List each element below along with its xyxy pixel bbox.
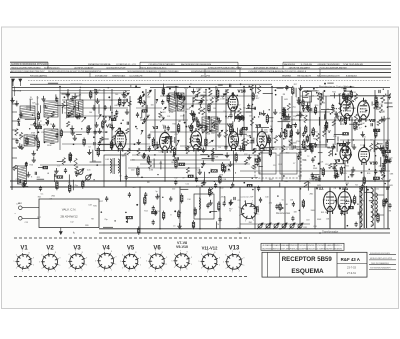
ground — [351, 167, 355, 172]
resistor — [235, 116, 240, 118]
svg-text:A.ERF3K.306AR3F: A.ERF3K.306AR3F — [74, 67, 94, 70]
resistor zigzag — [163, 139, 166, 144]
osc coil core — [112, 158, 114, 174]
wire vertical — [103, 89, 105, 150]
svg-text:5: 5 — [120, 261, 121, 263]
svg-text:V1: V1 — [20, 246, 28, 252]
wire vertical — [344, 212, 346, 228]
junction — [202, 132, 203, 133]
svg-text:C15: C15 — [227, 170, 230, 172]
junction — [152, 141, 153, 142]
resistor — [219, 175, 221, 185]
junction — [214, 181, 215, 182]
svg-text:1: 1 — [86, 264, 87, 266]
junction — [267, 142, 268, 143]
title block outer box — [262, 252, 367, 277]
capacitor — [199, 101, 202, 106]
svg-text:0K3D4.143R7-441.147RF: 0K3D4.143R7-441.147RF — [370, 258, 393, 260]
junction — [119, 134, 121, 136]
resistor — [139, 95, 141, 105]
wire vertical — [281, 96, 283, 181]
capacitor — [242, 116, 245, 121]
capacitor — [343, 94, 346, 99]
junction — [122, 105, 124, 107]
capacitor — [214, 183, 217, 188]
ground — [228, 161, 232, 166]
wire — [321, 108, 334, 110]
resistor zigzag — [173, 153, 176, 161]
svg-text:2: 2 — [253, 220, 254, 222]
header column tick — [47, 62, 49, 69]
wire right col — [383, 120, 385, 228]
wire top bus — [30, 83, 272, 85]
resistor zigzag — [126, 128, 129, 133]
power unit box — [39, 199, 99, 228]
wire — [327, 138, 335, 140]
resistor zigzag — [225, 89, 228, 94]
svg-text:RECEPTOR 5B59: RECEPTOR 5B59 — [282, 256, 333, 263]
resistor — [346, 145, 348, 154]
resistor zigzag — [210, 188, 213, 196]
svg-text:2: 2 — [55, 271, 56, 273]
svg-text:C3: C3 — [51, 141, 53, 143]
tube V4 — [191, 128, 202, 152]
resistor — [385, 154, 387, 163]
capacitor — [208, 116, 209, 119]
potentiometer — [257, 223, 263, 229]
wire line 145 — [270, 146, 330, 148]
wire stage row 108 — [64, 107, 128, 109]
capacitor — [334, 174, 337, 179]
resistor zigzag — [51, 112, 54, 118]
svg-text:0.05: 0.05 — [29, 99, 33, 101]
junction — [283, 138, 285, 140]
wire vertical — [344, 162, 346, 181]
wire — [166, 86, 178, 88]
resistor zigzag — [127, 148, 130, 155]
svg-text:8: 8 — [162, 252, 163, 254]
wire top bus 2b — [12, 90, 130, 92]
junction — [125, 212, 127, 214]
resistor — [36, 126, 42, 128]
wire — [146, 105, 148, 111]
svg-text:70: 70 — [217, 224, 219, 226]
svg-text:0.5M: 0.5M — [220, 98, 225, 100]
capacitor — [19, 180, 20, 183]
wire vertical — [145, 89, 147, 150]
svg-text:220: 220 — [26, 106, 29, 108]
svg-text:470K: 470K — [221, 197, 226, 199]
svg-text:2: 2 — [135, 270, 136, 272]
svg-text:100: 100 — [374, 149, 377, 151]
junction — [120, 123, 122, 125]
capacitor — [127, 122, 128, 125]
switch arrow — [209, 140, 214, 143]
ground — [54, 168, 58, 173]
resistor zigzag — [370, 143, 373, 151]
capacitor — [229, 84, 230, 87]
tube V2 — [115, 128, 126, 152]
svg-text:0.1: 0.1 — [41, 194, 44, 196]
tube V12 — [338, 189, 351, 215]
junction — [208, 155, 210, 157]
junction — [375, 216, 376, 217]
junction — [120, 180, 122, 182]
svg-text:220: 220 — [206, 205, 209, 207]
resistor — [90, 90, 92, 99]
junction — [359, 228, 361, 230]
svg-text:CKV4V0VR7K-F5VF: CKV4V0VR7K-F5VF — [106, 68, 126, 70]
junction — [383, 89, 384, 90]
coil box L3 — [44, 101, 58, 117]
svg-text:R22: R22 — [186, 109, 189, 111]
wire — [380, 157, 382, 167]
antenna A1 — [12, 79, 15, 87]
valve socket V7-V10 — [171, 250, 192, 272]
svg-text:0.05: 0.05 — [375, 188, 379, 190]
wire — [369, 200, 375, 202]
ground — [297, 99, 301, 104]
svg-text:8: 8 — [135, 252, 136, 254]
svg-text:23-7-53: 23-7-53 — [347, 266, 356, 270]
wire vertical — [154, 89, 156, 150]
ground — [350, 172, 354, 177]
capacitor — [143, 118, 146, 123]
wire — [61, 106, 63, 113]
svg-text:R4: R4 — [315, 132, 317, 134]
ground — [191, 89, 195, 94]
wire — [55, 94, 57, 100]
junction — [145, 150, 147, 152]
svg-text:2M2: 2M2 — [51, 196, 55, 198]
capacitor — [333, 165, 336, 170]
resistor — [110, 140, 112, 150]
ground — [217, 118, 221, 123]
switch arrow — [223, 94, 225, 98]
svg-text:V7: V7 — [338, 118, 344, 123]
capacitor — [310, 108, 311, 111]
wire — [371, 102, 373, 106]
svg-text:3: 3 — [232, 272, 233, 274]
capacitor — [46, 120, 49, 125]
junction — [371, 205, 372, 206]
resistor — [197, 120, 199, 129]
svg-text:793DK4220DR917MRC853860: 793DK4220DR917MRC853860 — [11, 68, 42, 70]
junction — [316, 87, 317, 88]
wire mid h2 — [140, 163, 250, 165]
wire left bus b — [14, 87, 16, 97]
output transformer secondary — [371, 188, 373, 226]
ground — [125, 109, 129, 114]
resistor — [375, 95, 377, 105]
capacitor — [336, 173, 339, 178]
ground — [73, 135, 77, 140]
wire — [332, 148, 334, 156]
svg-text:5: 5 — [146, 261, 147, 263]
junction — [340, 118, 341, 119]
wire — [307, 181, 309, 191]
cell divider — [324, 243, 326, 250]
terminal P1 — [19, 206, 23, 210]
svg-text:26F2R73E.M40A8R7: 26F2R73E.M40A8R7 — [289, 67, 311, 70]
wire — [262, 147, 275, 149]
svg-text:C24: C24 — [237, 200, 240, 202]
capacitor — [55, 97, 58, 102]
wire — [344, 90, 352, 92]
tube V7 — [341, 97, 354, 121]
ground — [122, 92, 126, 97]
svg-text:R26: R26 — [227, 166, 230, 168]
svg-text:R8: R8 — [91, 219, 93, 221]
switch arrow — [148, 90, 152, 96]
svg-text:R41: R41 — [38, 197, 41, 199]
svg-text:100: 100 — [151, 105, 154, 107]
svg-text:7: 7 — [180, 250, 181, 252]
resistor — [57, 176, 63, 178]
resistor — [192, 220, 194, 229]
svg-text:.48.X3AV50EE234AKVFE66AX.AAE2X: .48.X3AV50EE234AKVFE66AX.AAE2XMKD26V7163… — [262, 244, 342, 247]
svg-text:R17: R17 — [144, 120, 147, 122]
svg-text:C31: C31 — [41, 132, 44, 134]
svg-text:R31: R31 — [332, 92, 335, 94]
junction — [235, 172, 236, 173]
svg-text:Resistencias en Ω pri y Watios: Resistencias en Ω pri y Watios/sec — [319, 86, 355, 89]
resistor — [386, 150, 391, 152]
svg-text:~: ~ — [14, 212, 16, 216]
capacitor — [119, 142, 122, 147]
svg-text:2: 2 — [239, 270, 240, 272]
capacitor — [285, 85, 288, 90]
svg-text:Transformador: Transformador — [322, 231, 338, 234]
junction — [217, 118, 219, 120]
junction — [313, 165, 314, 166]
svg-text:220: 220 — [379, 166, 382, 168]
capacitor — [257, 209, 258, 212]
capacitor — [312, 175, 315, 180]
capacitor — [285, 116, 286, 119]
svg-text:9: 9 — [33, 258, 34, 260]
resistor zigzag — [123, 91, 126, 99]
junction — [300, 188, 301, 189]
ground — [346, 139, 350, 144]
resistor — [252, 92, 254, 101]
svg-text:47: 47 — [125, 153, 127, 155]
svg-text:100: 100 — [132, 159, 135, 161]
svg-text:50: 50 — [162, 125, 164, 127]
svg-text:8: 8 — [82, 252, 83, 254]
wire — [316, 144, 328, 146]
svg-text:3X9VM8.29W: 3X9VM8.29W — [95, 75, 107, 77]
wire left col 2 — [59, 87, 61, 151]
svg-text:A4DX12R3CV1M612EE272RE1V37: A4DX12R3CV1M612EE272RE1V37 — [11, 70, 46, 73]
wire — [318, 117, 320, 126]
junction — [311, 132, 312, 133]
capacitor — [358, 212, 359, 215]
junction — [209, 172, 211, 174]
resistor chain right 4 — [377, 213, 379, 223]
svg-text:R12: R12 — [237, 105, 240, 107]
resistor zigzag — [62, 101, 65, 108]
wire drop — [269, 187, 271, 229]
wire stub — [12, 129, 17, 131]
resistor zigzag — [148, 161, 151, 169]
svg-text:6K8: 6K8 — [284, 99, 287, 101]
svg-text:V12: V12 — [339, 186, 348, 191]
capacitor — [343, 87, 346, 92]
svg-text:4: 4 — [41, 268, 42, 270]
ground — [341, 141, 345, 146]
svg-text:C18: C18 — [223, 179, 226, 181]
svg-text:C18: C18 — [88, 205, 91, 207]
junction — [157, 174, 158, 175]
wire — [29, 99, 31, 111]
junction — [144, 102, 146, 104]
ground — [122, 99, 126, 104]
svg-text:R4: R4 — [218, 147, 220, 149]
output transformer primary — [360, 187, 363, 228]
IF transformer T2b — [178, 93, 185, 111]
terminal P2 — [19, 217, 23, 221]
junction — [143, 93, 145, 95]
junction — [361, 172, 363, 174]
svg-text:V8: V8 — [369, 118, 375, 123]
svg-text:R41: R41 — [291, 119, 294, 121]
ground — [262, 110, 266, 115]
svg-text:5: 5 — [39, 261, 40, 263]
wire — [302, 96, 308, 98]
svg-text:3: 3 — [207, 271, 208, 273]
wire — [110, 106, 112, 111]
ground — [306, 106, 310, 111]
svg-text:220: 220 — [261, 133, 264, 135]
svg-text:2: 2 — [187, 269, 188, 271]
svg-text:6RXM5W5AFFFWMR089WF40KREKM.W91: 6RXM5W5AFFFWMR089WF40KREKM.W911XW15 — [191, 70, 237, 73]
svg-text:5p: 5p — [156, 191, 158, 193]
svg-text:2: 2 — [29, 270, 30, 272]
ground — [239, 146, 243, 151]
dashed separator bottom — [14, 276, 248, 278]
svg-text:5p: 5p — [341, 105, 343, 107]
resistor zigzag — [329, 150, 332, 156]
wire drop — [329, 187, 331, 229]
wire — [174, 137, 176, 143]
junction — [248, 85, 249, 86]
resistor — [247, 184, 252, 186]
svg-text:C3: C3 — [275, 136, 277, 138]
wire — [253, 138, 255, 144]
wire — [304, 90, 318, 92]
resistor zigzag — [282, 145, 285, 151]
svg-text:1: 1 — [166, 264, 167, 266]
resistor zigzag — [212, 121, 215, 127]
svg-text:3: 3 — [22, 271, 23, 273]
title line under ref — [337, 263, 367, 265]
wire — [135, 86, 141, 88]
wire bottom bus 2 — [99, 232, 390, 234]
tube V3 — [160, 130, 171, 154]
svg-text:1: 1 — [116, 264, 117, 266]
svg-text:6: 6 — [149, 254, 150, 256]
junction — [228, 169, 230, 171]
potentiometer — [265, 223, 271, 229]
junction — [243, 86, 245, 88]
resistor — [303, 139, 305, 150]
capacitor — [298, 151, 301, 156]
svg-text:C12: C12 — [289, 145, 292, 147]
wire vertical — [309, 96, 311, 150]
svg-text:4: 4 — [122, 268, 123, 270]
wire — [216, 221, 218, 228]
svg-text:C24: C24 — [25, 134, 28, 136]
cell divider — [288, 243, 290, 250]
resistor zigzag — [253, 164, 256, 169]
resistor — [60, 129, 62, 138]
resistor — [382, 145, 384, 155]
tube V13 — [228, 92, 238, 114]
capacitor — [308, 143, 311, 148]
junction — [73, 108, 75, 110]
ground — [331, 144, 335, 149]
capacitor — [94, 142, 95, 145]
junction — [154, 154, 156, 156]
capacitor — [136, 112, 139, 117]
ground — [19, 112, 23, 117]
svg-text:0.05: 0.05 — [87, 170, 91, 172]
svg-text:330K: 330K — [313, 168, 318, 170]
wire — [246, 111, 252, 113]
resistor — [302, 99, 304, 108]
wire stage row 144 — [62, 143, 150, 145]
svg-text:47: 47 — [370, 140, 372, 142]
junction — [383, 175, 385, 177]
capacitor — [67, 112, 70, 117]
junction — [225, 115, 227, 117]
wire — [256, 126, 258, 138]
resistor — [218, 201, 220, 211]
capacitor — [287, 123, 290, 128]
resistor — [179, 163, 185, 165]
wire — [170, 139, 172, 150]
capacitor — [260, 112, 261, 115]
wire drop — [314, 187, 316, 229]
svg-text:50: 50 — [282, 200, 284, 202]
wire — [200, 154, 208, 156]
junction — [46, 107, 47, 108]
wire — [283, 112, 285, 121]
wire — [210, 211, 217, 213]
junction — [333, 105, 334, 106]
wire — [258, 166, 262, 168]
resistor zigzag — [238, 108, 241, 115]
svg-text:100: 100 — [161, 140, 164, 142]
box discriminator — [194, 194, 214, 219]
wire — [384, 102, 392, 104]
wire stub — [12, 103, 17, 105]
resistor — [178, 210, 180, 219]
ground — [297, 97, 301, 102]
svg-text:V13: V13 — [238, 89, 247, 94]
switch arrow — [177, 140, 180, 146]
svg-text:4: 4 — [201, 268, 202, 270]
svg-text:R31: R31 — [30, 125, 33, 127]
capacitor — [347, 93, 350, 98]
junction — [320, 93, 322, 95]
signature line 1 — [369, 254, 396, 256]
svg-text:7V3A.7XW14MM.M9: 7V3A.7XW14MM.M9 — [343, 63, 364, 66]
switch arrow — [160, 118, 164, 122]
svg-text:4.7: 4.7 — [359, 127, 362, 129]
svg-text:330K: 330K — [375, 109, 380, 111]
